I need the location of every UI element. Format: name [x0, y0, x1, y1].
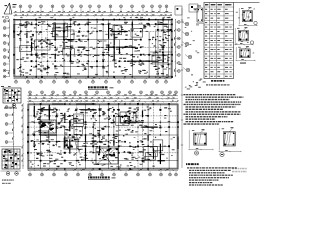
- beam schedule table: [204, 3, 234, 79]
- small symbols in top gap: [175, 4, 198, 15]
- upper plan left dimension line: [8, 19, 10, 77]
- bottom-left small detail: [1, 147, 22, 184]
- lower plan dense clusters (stair shafts): [40, 112, 136, 164]
- beam labels above upper plan: [20, 16, 171, 19]
- upper plan left axis bubbles: [3, 20, 9, 78]
- lower plan top axis bubbles: [29, 91, 178, 96]
- upper plan top dimension lines: [13, 11, 172, 16]
- upper plan bottom dimension lines: [13, 77, 172, 79]
- upper plan right dimension and bubbles: [174, 19, 180, 77]
- table footer labels: [206, 80, 230, 86]
- lower plan bottom dimension lines: [27, 169, 178, 171]
- top-right corner rule: [234, 2, 260, 4]
- stray labels near right-edge details: [236, 9, 255, 54]
- lower plan left dimension lines: [12, 103, 24, 169]
- middle beam detail A with circle: [189, 129, 214, 155]
- stair detail left-middle: [1, 86, 21, 109]
- lower plan left axis bubbles: [5, 106, 13, 169]
- lower plan top dimension lines: [27, 94, 178, 102]
- bottom notes lines: [187, 167, 237, 185]
- lower plan title (underlined): [88, 176, 116, 179]
- leader circles between plan and table: [179, 10, 206, 90]
- section line right of plans: [181, 8, 183, 168]
- upper plan bottom axis bubbles: [15, 79, 168, 83]
- right-edge detail 3: [236, 46, 256, 63]
- right-edge detail 2: [235, 27, 254, 45]
- upper floor plan body: [13, 19, 173, 78]
- north symbol top-left: [2, 3, 17, 19]
- upper plan title (underlined): [88, 86, 114, 89]
- drawing number stamp (faint): [232, 168, 247, 173]
- column section mini-detail left of table: [196, 6, 204, 26]
- notes heading bottom: [186, 163, 199, 165]
- lower plan bottom axis bubbles: [29, 171, 178, 176]
- notes block upper (numbered): [184, 94, 244, 125]
- right-edge detail 1: [239, 7, 258, 26]
- upper plan top axis bubbles: [19, 5, 168, 12]
- lower floor plan body: [27, 103, 179, 170]
- middle beam detail B with circle: [219, 127, 242, 156]
